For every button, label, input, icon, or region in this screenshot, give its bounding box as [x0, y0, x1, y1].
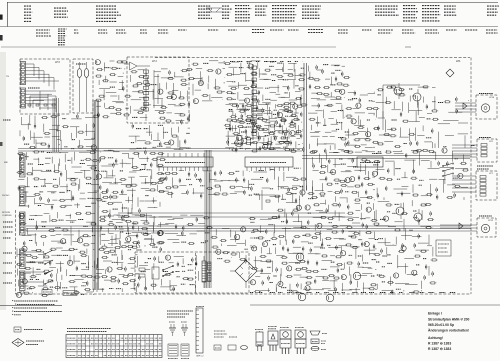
- svg-text:565.20=01.00 Sp: 565.20=01.00 Sp: [428, 323, 454, 327]
- svg-text:Änderungen vorbehalten!: Änderungen vorbehalten!: [428, 329, 469, 333]
- svg-text:LP 6: LP 6: [55, 61, 61, 64]
- svg-text:R 1387 ⊖ 1383: R 1387 ⊖ 1383: [428, 342, 451, 346]
- svg-text:LP1: LP1: [456, 59, 461, 63]
- svg-text:LP 2: LP 2: [152, 60, 158, 63]
- svg-text:R 1387 ⊖ 1383: R 1387 ⊖ 1383: [428, 347, 451, 351]
- svg-text:LP12: LP12: [488, 220, 494, 222]
- svg-text:Achtung!: Achtung!: [428, 336, 443, 340]
- svg-text:LP10: LP10: [489, 97, 495, 99]
- svg-text:GBF 5.2: GBF 5.2: [196, 356, 204, 358]
- svg-text:Einlage I: Einlage I: [428, 312, 442, 316]
- svg-text:Stromlaufplan HMK-V 200: Stromlaufplan HMK-V 200: [428, 318, 470, 322]
- svg-text:RETURN: RETURN: [2, 212, 11, 214]
- svg-text:COMPENS: COMPENS: [2, 215, 12, 217]
- svg-text:MIK: MIK: [4, 162, 8, 164]
- svg-text:PHONO: PHONO: [2, 195, 10, 197]
